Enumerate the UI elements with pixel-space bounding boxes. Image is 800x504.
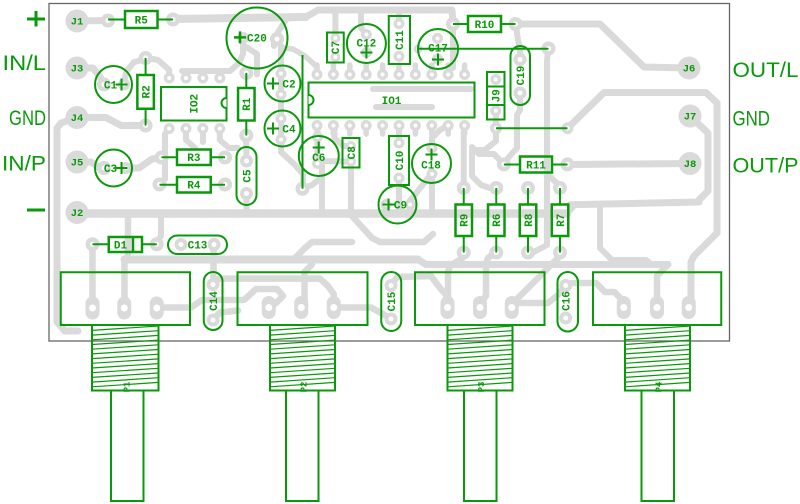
wire J1 to R5 (77, 17, 108, 25)
wire left ground rail (57, 118, 78, 332)
wire R6 to P3 pad2 (480, 253, 495, 306)
svg-text:C5: C5 (242, 169, 254, 183)
label IN/P (2, 152, 46, 176)
capacitor C10 (389, 136, 409, 185)
wire C7 top to rail (332, 10, 338, 38)
svg-text:R1: R1 (242, 97, 254, 111)
svg-text:R4: R4 (187, 181, 201, 193)
wire green through C17 (418, 48, 549, 50)
pads of C1 (97, 78, 130, 92)
wire vertical to R7 top (547, 174, 560, 188)
pads of green line C17 (414, 42, 556, 56)
svg-text:J9: J9 (491, 89, 503, 102)
pads of P1 (86, 297, 164, 320)
pads of C6 (312, 132, 323, 170)
wire IO2 bottom stubs (186, 129, 238, 149)
wire C6 area to band (319, 164, 325, 215)
wire P4 pad1 to C16 (567, 283, 624, 307)
wire C14 bottom stub (213, 311, 238, 321)
label IN/L (3, 51, 47, 75)
pads of C8 (346, 141, 356, 167)
capacitor C13 (168, 236, 227, 255)
wire ground band upper (77, 207, 573, 214)
pads of green line J9 (490, 122, 574, 134)
wire C2 C4 vertical (277, 40, 303, 184)
svg-text:C13: C13 (188, 240, 208, 252)
svg-text:R11: R11 (526, 160, 546, 172)
capacitor C14 (204, 272, 223, 330)
svg-text:C7: C7 (331, 41, 343, 54)
pad J3 (66, 57, 89, 80)
label GND right (733, 107, 771, 131)
svg-text:IO2: IO2 (190, 94, 202, 114)
svg-text:C4: C4 (282, 125, 296, 137)
svg-text:C15: C15 (387, 291, 399, 311)
wire P1 pad3 to P2 pad1 (157, 289, 283, 308)
svg-text:R8: R8 (524, 213, 536, 227)
svg-text:C10: C10 (395, 151, 407, 171)
pads of C3 (97, 161, 132, 175)
capacitor C7 (327, 33, 344, 63)
label OUT/L (733, 58, 799, 82)
resistor R7 (552, 181, 569, 260)
capacitor C4 (265, 111, 301, 147)
potentiometer P1 (61, 272, 190, 501)
pad J4 (66, 106, 89, 129)
svg-text:R7: R7 (556, 214, 568, 227)
capacitor C11 (389, 16, 410, 64)
resistor R8 (520, 181, 537, 260)
svg-text:P1: P1 (122, 381, 132, 392)
svg-text:GND: GND (733, 107, 771, 131)
capacitor C19 (511, 46, 531, 105)
wire J5 to C3 (77, 162, 104, 168)
wire IO1 top stubs (317, 65, 465, 75)
wire C18 to C9 (408, 178, 428, 203)
potentiometer P4 (593, 272, 721, 501)
wire IO1 pin1 bend (283, 48, 317, 67)
svg-text:J5: J5 (71, 158, 84, 170)
svg-text:C3: C3 (104, 164, 118, 176)
svg-text:R6: R6 (492, 214, 504, 227)
svg-text:J8: J8 (684, 159, 697, 171)
capacitor C12 (347, 24, 386, 63)
svg-text:R3: R3 (187, 153, 201, 165)
wire R10 right down (516, 24, 521, 60)
wire J8 to R11 (568, 164, 688, 165)
wire R9 to P3 pad1 (448, 253, 463, 305)
wire GL2 to R6 (472, 128, 496, 188)
wire C8 top (335, 126, 352, 147)
wire C15 to P3 pad1 (391, 276, 448, 304)
capacitor C6 (299, 136, 339, 176)
pads of P4 (617, 296, 696, 319)
resistor R2 (137, 51, 154, 133)
wire band to D1 (157, 215, 161, 244)
wire C6 vertical (315, 126, 321, 164)
wire under IO1 a (373, 86, 471, 92)
wire lower bus right (426, 261, 668, 268)
pads of C17 (432, 33, 443, 65)
wire C5 to ground band (244, 194, 250, 213)
svg-text:J3: J3 (71, 64, 84, 76)
pads of C20 (237, 32, 284, 46)
pad J7 (679, 105, 702, 128)
svg-text:P2: P2 (300, 382, 310, 393)
pads of C4 (276, 113, 287, 145)
svg-text:C19: C19 (516, 66, 528, 86)
wire GL2 to J loop (568, 93, 718, 304)
capacitor C9 (379, 186, 417, 224)
wire P4 pad2 up (657, 265, 668, 301)
svg-text:C20: C20 (247, 34, 267, 46)
wire R5 to top rail (173, 10, 453, 68)
svg-text:J7: J7 (684, 112, 697, 124)
wire C17 pad long vertical (528, 49, 549, 255)
diode D1 (86, 237, 164, 252)
capacitor C1 (95, 66, 132, 103)
wire IO2 pin1 to R2 (147, 58, 169, 78)
resistor R4 (153, 177, 233, 193)
pads of C2 (276, 68, 287, 100)
op-amp IO1 (309, 83, 475, 118)
capacitor C2 (265, 66, 301, 102)
wire bus to mid bus (295, 242, 352, 258)
label OUT/P (733, 154, 799, 178)
pads of P2 (262, 296, 341, 319)
wire C1 to R2 (124, 59, 145, 84)
wire R1 to C5 (243, 136, 250, 162)
svg-text:R10: R10 (475, 20, 495, 32)
pads of C9 (381, 199, 416, 210)
pads of P3 (441, 296, 519, 319)
wire C18 to IO1 (432, 126, 448, 149)
wire top rail branch into C20 (277, 17, 288, 38)
resistor R10 (446, 16, 523, 32)
svg-text:C2: C2 (282, 80, 295, 92)
svg-text:J1: J1 (71, 17, 84, 29)
wire R10 to J6 (516, 24, 688, 68)
pad J5 (66, 151, 89, 174)
IO1 pin pads (312, 69, 471, 131)
wire bus to P2 pad2 (305, 265, 313, 306)
pads of J9 (490, 74, 501, 116)
svg-text:J6: J6 (683, 64, 696, 76)
PCB board outline (49, 4, 730, 342)
pad of vertical green line (296, 182, 310, 196)
pad J6 (678, 57, 701, 80)
pad J1 (66, 10, 89, 33)
capacitor C8 (343, 138, 360, 168)
wire C11 top to rail (396, 10, 402, 24)
svg-text:OUT/P: OUT/P (733, 154, 799, 178)
wire J3 to C1 (77, 68, 104, 84)
svg-text:GND: GND (9, 106, 46, 130)
pads of C10 (394, 138, 405, 184)
wire IO2 pin to R3 R4 (160, 129, 169, 185)
wire lower bus left (125, 256, 419, 264)
wire J7 loop (570, 116, 708, 205)
wire C18 to band (429, 174, 435, 212)
resistor R3 (155, 150, 233, 166)
wire loop filler to bus (600, 206, 652, 265)
wire IO2 top connector (182, 45, 243, 78)
svg-text:C8: C8 (347, 146, 359, 160)
svg-text:P4: P4 (655, 381, 665, 392)
svg-text:C18: C18 (421, 160, 441, 172)
wire band to mid bus (352, 216, 433, 242)
potentiometer P2 (238, 272, 368, 501)
svg-text:C16: C16 (562, 291, 574, 311)
pad J2 (66, 201, 89, 224)
capacitor C3 (95, 150, 132, 187)
pads of C19 (514, 53, 527, 100)
svg-text:P3: P3 (477, 382, 487, 393)
capacitor C15 (381, 272, 401, 331)
capacitor C18 (412, 144, 451, 183)
pads of C11 (394, 18, 405, 62)
wire J9 to GL2 (493, 111, 499, 127)
wire IO1 bottom stubs (317, 126, 465, 135)
wire C13 to C14 (210, 245, 217, 285)
svg-text:C9: C9 (394, 200, 407, 212)
wire C10 top (396, 126, 402, 143)
wire VL pad to C6 (303, 164, 323, 189)
wire C6 to C8 (318, 158, 352, 165)
wire R11 left bend (472, 147, 504, 164)
wire C8 bottom to band (348, 162, 354, 213)
resistor R5 (101, 11, 180, 28)
svg-text:J2: J2 (71, 208, 84, 220)
resistor R1 (238, 66, 255, 143)
wire under C20 (243, 39, 274, 75)
label plus (supply +) (27, 11, 45, 27)
wire J4 to R2 (77, 118, 144, 126)
svg-text:C14: C14 (209, 291, 221, 311)
wire C10 to band (396, 178, 402, 212)
wire C3 to R3 (126, 158, 162, 169)
pads of C18 (427, 143, 438, 180)
wire C16 to P3 pad3 (512, 286, 566, 306)
pad J8 (679, 152, 702, 175)
svg-text:IN/P: IN/P (2, 152, 46, 176)
pads of C12 (361, 29, 372, 58)
wire C12 top to rail (361, 10, 366, 35)
wire R7 to P3 pad3 (513, 253, 560, 304)
svg-text:IN/L: IN/L (3, 51, 47, 75)
svg-text:C6: C6 (312, 153, 325, 165)
wire D1 to P1 pad1 (89, 244, 96, 305)
op-amp IO2 (161, 87, 227, 121)
capacitor C17 (418, 29, 458, 69)
wire R9 top to IO1 (461, 132, 467, 188)
wire green J9 line (496, 127, 568, 129)
potentiometer P3 (415, 272, 545, 501)
wire lower bus jog (418, 260, 426, 265)
resistor R11 (497, 157, 575, 173)
svg-text:J4: J4 (71, 113, 84, 125)
wire C19 bottom to R11 (504, 93, 520, 164)
resistor R9 (456, 181, 473, 260)
jumper J9 (487, 72, 505, 120)
label GND left (9, 106, 46, 130)
svg-text:D1: D1 (114, 240, 128, 252)
label minus (supply -) (27, 209, 45, 212)
svg-text:R5: R5 (135, 15, 149, 27)
svg-text:OUT/L: OUT/L (733, 58, 799, 82)
wire C14 top to P2 pad3 (213, 279, 334, 305)
svg-text:R9: R9 (460, 214, 472, 227)
pads of C7 (330, 33, 340, 62)
wire under IO1 b (376, 104, 432, 110)
resistor R6 (488, 181, 505, 260)
wire green vertical (302, 55, 304, 189)
wire band to P1 pad2 (125, 215, 129, 300)
capacitor C20 (227, 8, 288, 69)
svg-text:R2: R2 (141, 85, 153, 98)
svg-text:C1: C1 (104, 81, 118, 93)
svg-text:C11: C11 (395, 30, 407, 50)
wire C9 stubs (386, 205, 410, 214)
svg-text:IO1: IO1 (382, 96, 402, 108)
capacitor C5 (237, 147, 257, 205)
IO2 pin pads (164, 73, 226, 135)
capacitor C16 (558, 272, 579, 332)
wire P2 pad3 to C15 (334, 308, 391, 320)
